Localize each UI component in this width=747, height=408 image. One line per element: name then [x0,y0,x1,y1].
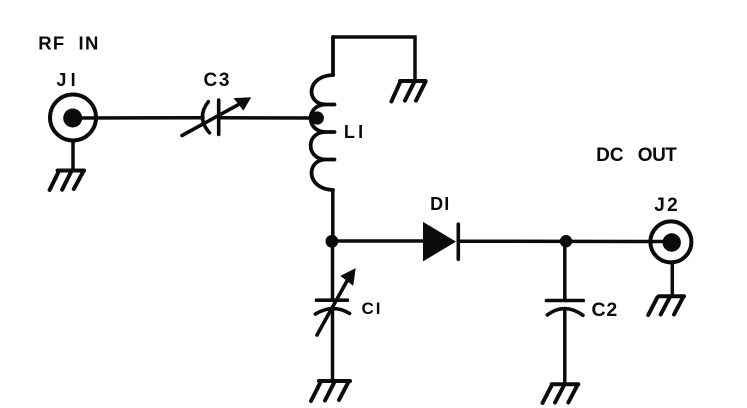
svg-text:CI: CI [362,299,383,318]
svg-text:DC: DC [596,145,624,166]
svg-text:IN: IN [79,32,100,53]
svg-text:RF: RF [38,32,65,53]
svg-text:JI: JI [56,70,79,90]
svg-text:C2: C2 [592,299,619,321]
svg-text:J2: J2 [654,195,680,216]
svg-text:LI: LI [344,122,366,142]
svg-text:OUT: OUT [638,145,678,166]
svg-text:C3: C3 [204,70,232,91]
svg-text:DI: DI [430,194,450,214]
